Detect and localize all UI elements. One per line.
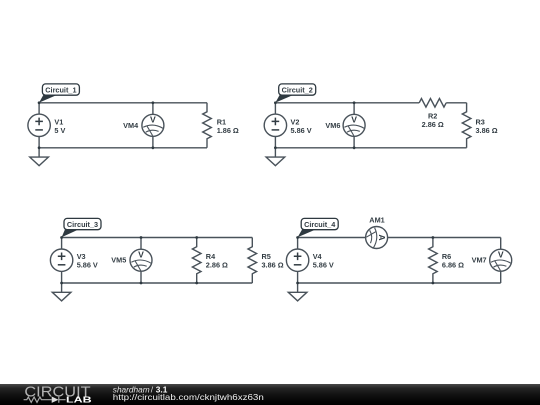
- junction circuit3 top-left: [60, 236, 63, 239]
- voltmeter VM5: [130, 238, 152, 284]
- label R4 value: [206, 252, 228, 270]
- wire circuit1 top: [39, 102, 207, 104]
- wire circuit3 top: [62, 237, 253, 239]
- label V2 value: [291, 117, 312, 135]
- CircuitLab logo and caption: [0, 384, 540, 405]
- svg-text:V: V: [150, 115, 156, 125]
- label R1 value: [217, 117, 239, 135]
- svg-text:VM4: VM4: [123, 121, 139, 130]
- resistor R2 (horizontal): [419, 99, 446, 108]
- svg-text:3.86 Ω: 3.86 Ω: [262, 261, 284, 270]
- label AM1: [369, 215, 384, 224]
- wire circuit4 top right: [388, 237, 501, 239]
- resistor R5: [248, 238, 257, 284]
- label R2 value: [422, 111, 444, 129]
- voltage source V3: [50, 238, 72, 284]
- wire circuit4 top left: [298, 237, 366, 239]
- junction R6 top: [432, 236, 435, 239]
- junction R4 top: [195, 236, 198, 239]
- node label Circuit_3: [62, 218, 101, 237]
- svg-text:Circuit_3: Circuit_3: [67, 220, 98, 229]
- node label Circuit_4: [298, 218, 339, 237]
- junction circuit1 bottom-left: [38, 146, 41, 149]
- svg-text:Circuit_4: Circuit_4: [304, 220, 336, 229]
- svg-text:1.86 Ω: 1.86 Ω: [217, 126, 239, 135]
- label R3 value: [476, 117, 498, 135]
- resistor R6: [429, 238, 438, 284]
- svg-text:A: A: [377, 234, 387, 240]
- svg-text:Circuit_2: Circuit_2: [282, 86, 313, 95]
- svg-text:5.86 V: 5.86 V: [77, 261, 98, 270]
- node label Circuit_1: [39, 84, 79, 103]
- ground: [52, 283, 71, 301]
- junction VM6 bottom: [353, 146, 356, 149]
- junction VM4 bottom: [152, 146, 155, 149]
- svg-text:VM6: VM6: [325, 121, 340, 130]
- svg-text:5 V: 5 V: [54, 126, 65, 135]
- resistor R1: [203, 103, 212, 148]
- label VM6: [325, 121, 340, 130]
- label V4 value: [313, 252, 334, 270]
- ground: [30, 148, 49, 166]
- wire circuit2 top left: [275, 102, 419, 104]
- label VM7: [472, 256, 487, 265]
- svg-text:V: V: [351, 115, 357, 125]
- svg-text:VM5: VM5: [111, 256, 126, 265]
- wire circuit4 bottom: [298, 282, 501, 284]
- voltage source V2: [264, 103, 286, 148]
- svg-text:V: V: [138, 250, 144, 260]
- junction R4 bottom: [195, 282, 198, 285]
- svg-text:VM7: VM7: [472, 256, 487, 265]
- junction VM4 top: [152, 101, 155, 104]
- ammeter AM1: [366, 227, 388, 249]
- junction circuit4 bottom-left: [296, 282, 299, 285]
- label V3 value: [77, 252, 98, 270]
- svg-text:AM1: AM1: [369, 215, 384, 224]
- svg-text:6.86 Ω: 6.86 Ω: [442, 261, 464, 270]
- junction circuit4 top-left: [296, 236, 299, 239]
- voltmeter VM4: [142, 103, 164, 148]
- junction circuit1 top-left: [38, 101, 41, 104]
- label VM4: [123, 121, 139, 130]
- junction R6 bottom: [432, 282, 435, 285]
- svg-text:2.86 Ω: 2.86 Ω: [422, 120, 444, 129]
- wire circuit1 bottom: [39, 147, 207, 149]
- svg-text:5.86 V: 5.86 V: [313, 261, 334, 270]
- footer bar: [0, 384, 540, 405]
- svg-text:3.86 Ω: 3.86 Ω: [476, 126, 498, 135]
- junction VM5 top: [140, 236, 143, 239]
- label V1 value: [54, 117, 65, 135]
- node label Circuit_2: [275, 84, 315, 103]
- wire circuit2 bottom: [275, 147, 466, 149]
- svg-text:5.86 V: 5.86 V: [291, 126, 312, 135]
- junction circuit2 bottom-left: [274, 146, 277, 149]
- junction circuit3 bottom-left: [60, 282, 63, 285]
- wire circuit3 bottom: [62, 282, 253, 284]
- label R6 value: [442, 252, 464, 270]
- svg-text:Circuit_1: Circuit_1: [45, 86, 76, 95]
- voltmeter VM7: [490, 238, 512, 284]
- wire circuit2 top right: [446, 102, 466, 104]
- svg-text:V: V: [498, 250, 504, 260]
- svg-text:2.86 Ω: 2.86 Ω: [206, 261, 228, 270]
- resistor R4: [192, 238, 201, 284]
- label VM5: [111, 256, 126, 265]
- junction VM5 bottom: [140, 282, 143, 285]
- svg-text:http://circuitlab.com/cknjtwh6: http://circuitlab.com/cknjtwh6xz63n: [113, 393, 265, 402]
- junction circuit2 top-left: [274, 101, 277, 104]
- junction VM6 top: [353, 101, 356, 104]
- voltage source V4: [286, 238, 308, 284]
- voltmeter VM6: [343, 103, 365, 148]
- ground: [266, 148, 285, 166]
- svg-text:LAB: LAB: [66, 396, 92, 405]
- voltage source V1: [28, 103, 50, 148]
- ground: [288, 283, 307, 301]
- resistor R3: [462, 103, 471, 148]
- label R5 value: [262, 252, 284, 270]
